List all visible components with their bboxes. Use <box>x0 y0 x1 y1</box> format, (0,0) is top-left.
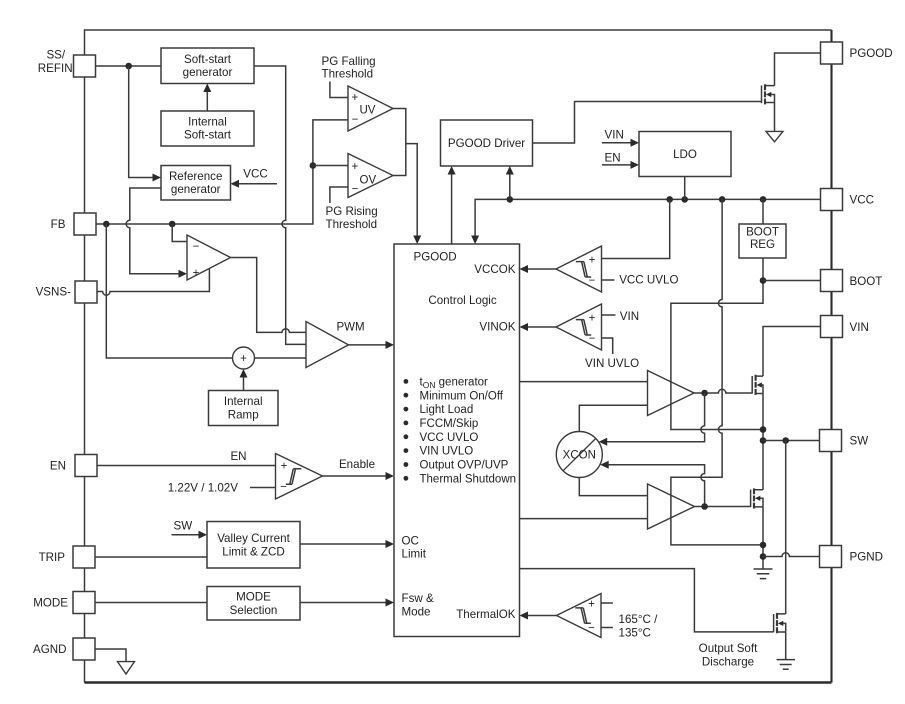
node FB junction 1 <box>103 221 110 228</box>
svg-text:Minimum On/Off: Minimum On/Off <box>420 390 504 402</box>
node VCC rail junctions <box>507 196 514 203</box>
pin EN <box>50 455 97 477</box>
wire SS/REFIN pin to soft-start generator <box>96 65 162 67</box>
wire FB node down to summing node <box>106 224 232 358</box>
svg-text:PGND: PGND <box>850 551 884 564</box>
svg-text:Ramp: Ramp <box>228 409 259 422</box>
svg-text:REG: REG <box>750 238 775 251</box>
block MODE Selection <box>207 587 300 621</box>
svg-text:Reference: Reference <box>169 170 223 183</box>
ground (PGOOD FET source, triangle style) <box>766 103 783 142</box>
wire valley block output to OC Limit <box>300 540 394 548</box>
svg-text:Light Load: Light Load <box>420 404 474 416</box>
node SW discharge tap <box>782 437 789 444</box>
svg-text:Internal: Internal <box>224 395 263 408</box>
svg-text:−: − <box>352 183 359 195</box>
label EN (into LDO) <box>602 151 639 169</box>
wire error amp output to PWM top input (hops soft-start line) <box>231 258 307 333</box>
node SW junctions <box>760 426 767 433</box>
wire VIN UVLO output to VINOK <box>520 323 557 331</box>
svg-text:Soft-start: Soft-start <box>184 129 232 142</box>
svg-text:BOOT: BOOT <box>850 275 883 288</box>
block Soft-start generator <box>161 48 254 84</box>
svg-text:VIN: VIN <box>620 310 639 323</box>
pin TRIP <box>39 546 95 568</box>
ground (low-side source, 3-bar) <box>754 557 773 579</box>
wire EN pin to EN comparator <box>97 465 276 467</box>
node HS driver output junction <box>701 390 708 397</box>
svg-text:VCC: VCC <box>243 168 267 181</box>
ground (AGND, triangle style) <box>96 649 135 674</box>
block PGOOD Driver <box>441 120 533 166</box>
wire MODE selection output to Fsw & Mode <box>300 599 394 607</box>
comparator VIN UVLO (hysteresis) <box>556 304 639 370</box>
wire SS node down to reference generator input <box>129 66 161 182</box>
svg-text:Selection: Selection <box>230 604 278 617</box>
svg-text:ThermalOK: ThermalOK <box>456 608 516 621</box>
wire VCC UVLO output to VCCOK <box>520 265 557 273</box>
svg-text:Control Logic: Control Logic <box>428 294 497 307</box>
block Internal Ramp <box>209 391 279 426</box>
wire control logic up to PGOOD driver <box>448 166 456 244</box>
svg-text:+: + <box>589 254 596 266</box>
node SS junction <box>125 63 132 70</box>
svg-text:VIN: VIN <box>850 321 869 334</box>
svg-text:Internal: Internal <box>188 116 227 129</box>
wire summing node to PWM bottom input <box>255 357 307 359</box>
wire PGOOD pin to FET drain <box>775 53 821 86</box>
wire OV tap to OV + input <box>313 165 348 167</box>
wire FB pin to UV/OV comparators <box>96 120 348 224</box>
label 1.22V / 1.02V <box>168 481 276 494</box>
svg-text:VIN: VIN <box>605 128 624 141</box>
pin FB <box>51 213 96 235</box>
svg-text:AGND: AGND <box>33 643 67 656</box>
pin SW <box>820 430 869 452</box>
wire control logic to high-side driver input <box>520 381 648 383</box>
svg-text:Threshold: Threshold <box>326 218 378 231</box>
svg-text:+: + <box>240 353 247 365</box>
svg-text:VCC UVLO: VCC UVLO <box>619 274 678 287</box>
svg-text:SW: SW <box>174 519 193 532</box>
pin PGND <box>820 546 884 568</box>
svg-text:+: + <box>281 461 288 473</box>
pin SS/REFIN <box>38 49 96 77</box>
svg-text:+: + <box>193 267 200 279</box>
svg-text:+: + <box>351 161 358 173</box>
summing node <box>233 347 255 369</box>
wire PWM output to control logic <box>349 341 395 349</box>
svg-text:VIN UVLO: VIN UVLO <box>585 357 639 370</box>
wire UV/OV outputs joined <box>393 109 406 176</box>
transistor output soft discharge FET <box>774 613 786 633</box>
svg-text:Soft-start: Soft-start <box>184 53 232 66</box>
block Reference generator <box>161 166 231 201</box>
pin MODE <box>33 592 95 614</box>
label PG Rising Threshold <box>326 187 378 231</box>
svg-text:OV: OV <box>360 174 377 186</box>
pin BOOT <box>821 270 883 292</box>
wire soft-start generator output down to PWM middle input (hops FB wire) <box>254 66 306 344</box>
svg-text:EN: EN <box>230 450 246 463</box>
svg-text:Mode: Mode <box>402 606 431 619</box>
pin PGOOD <box>821 42 893 64</box>
wire TRIP pin to valley current limit block <box>95 556 207 558</box>
wire XCON top to high-side driver input <box>579 405 647 431</box>
svg-text:XCON: XCON <box>563 450 596 462</box>
pin VCC <box>821 189 874 211</box>
comparator PWM <box>306 322 365 368</box>
wire low-side driver output to LS FET gate <box>695 506 751 508</box>
wire PGOOD driver output to PGOOD FET gate <box>533 102 762 144</box>
wire VIN pin to HS FET drain <box>763 327 821 377</box>
wire high-side driver output to HS FET gate (hops VCC drop) <box>694 389 752 393</box>
chip outline border <box>85 30 832 683</box>
block Valley Current Limit & ZCD <box>207 522 300 569</box>
svg-text:VCCOK: VCCOK <box>474 263 515 276</box>
wire VCC rail from VCC pin to control logic <box>471 199 820 244</box>
svg-text:SW: SW <box>850 435 869 448</box>
svg-text:SS/: SS/ <box>46 49 65 62</box>
svg-text:PGOOD: PGOOD <box>414 251 457 264</box>
svg-text:REFIN: REFIN <box>38 62 73 75</box>
ground (discharge FET source, 3-bar) <box>777 632 796 669</box>
wire XCON bottom to low-side driver input <box>579 478 647 496</box>
pin VIN <box>821 316 869 338</box>
wire internal ramp up to summing node <box>240 369 248 391</box>
node PGND junctions <box>760 542 767 549</box>
node BOOT junction <box>760 277 767 284</box>
wire VIN UVLO - stub down to VIN UVLO label <box>602 338 613 354</box>
wire SW node down to discharge FET drain <box>785 441 787 614</box>
svg-text:135°C: 135°C <box>619 627 651 640</box>
svg-text:EN: EN <box>50 460 66 473</box>
gate driver high-side U-HS <box>648 371 695 416</box>
svg-text:PG Rising: PG Rising <box>326 205 378 218</box>
svg-text:Enable: Enable <box>339 458 375 471</box>
op-amp error amplifier <box>187 235 231 280</box>
svg-text:Output OVP/UVP: Output OVP/UVP <box>420 460 509 472</box>
svg-text:FCCM/Skip: FCCM/Skip <box>420 418 479 430</box>
svg-text:PGOOD: PGOOD <box>850 47 893 60</box>
wire VCC UVLO - stub <box>602 279 615 281</box>
wire BOOT node to BOOT pin <box>763 280 821 282</box>
wire VIN UVLO + stub <box>602 314 616 316</box>
svg-text:+: + <box>589 312 596 324</box>
svg-text:generator: generator <box>183 66 233 79</box>
svg-text:PGOOD Driver: PGOOD Driver <box>448 137 525 150</box>
svg-text:MODE: MODE <box>236 591 271 604</box>
svg-text:+: + <box>351 92 358 104</box>
wire LS FET source down to PGND node <box>762 507 764 557</box>
svg-text:VCC: VCC <box>850 194 874 207</box>
gate driver low-side U-LS <box>648 484 695 529</box>
transistor PGOOD pull-down FET <box>762 84 775 104</box>
svg-text:LDO: LDO <box>673 148 697 161</box>
svg-text:+: + <box>588 598 595 610</box>
svg-text:Discharge: Discharge <box>702 656 754 669</box>
wire SW pin to switch node <box>763 440 820 442</box>
svg-text:VCC UVLO: VCC UVLO <box>420 432 479 444</box>
comparator VCC UVLO (hysteresis) <box>556 246 678 292</box>
wire EN comparator output (Enable) to control logic <box>323 458 395 480</box>
block Internal Soft-start <box>161 111 254 146</box>
comparator UV <box>348 86 393 131</box>
svg-text:−: − <box>193 241 200 253</box>
wire control logic to discharge FET gate <box>520 569 774 632</box>
wire VCC node up to PGOOD driver <box>506 166 514 199</box>
svg-text:generator: generator <box>171 183 221 196</box>
label SW (into valley current limit) <box>172 519 208 538</box>
svg-text:UV: UV <box>360 104 376 116</box>
comparator OV <box>348 154 393 198</box>
wire VCC passthrough to low-side driver and PGND (hops BOOT rail, SW line) <box>671 199 763 545</box>
svg-text:Limit: Limit <box>402 548 427 561</box>
svg-text:BOOT: BOOT <box>746 226 779 239</box>
svg-text:TRIP: TRIP <box>39 551 66 564</box>
wire UV/OV result down into control logic (PGOOD) <box>406 144 421 244</box>
label Output Soft Discharge <box>699 642 758 669</box>
wire MODE pin to MODE selection block <box>95 602 207 604</box>
svg-text:OC: OC <box>402 534 419 547</box>
svg-text:−: − <box>280 481 287 493</box>
svg-text:Limit & ZCD: Limit & ZCD <box>222 545 284 558</box>
block Control Logic <box>394 244 520 637</box>
wire PGND pin to PGND node (hops discharge drain) <box>763 553 820 557</box>
wire VSNS- pin to error amp bottom (hops vertical) <box>97 269 209 296</box>
block LDO <box>639 132 731 177</box>
comparator EN (hysteresis) <box>276 454 323 500</box>
wire internal-soft-start to generator (up arrow) <box>203 84 211 112</box>
svg-text:EN: EN <box>605 151 621 164</box>
wire LS output up to XCON (hops VCC jog) <box>600 461 704 507</box>
pin VSNS- <box>36 281 97 303</box>
svg-text:Output Soft: Output Soft <box>699 642 758 655</box>
transistor high-side FET <box>752 375 763 395</box>
label VIN (into LDO) <box>602 128 639 146</box>
node OV tap junction <box>310 162 317 169</box>
wire LDO output down to VCC rail <box>684 177 686 200</box>
wire ThermalOK + - stubs <box>601 603 613 628</box>
svg-text:PG Falling: PG Falling <box>322 55 376 68</box>
svg-text:VIN UVLO: VIN UVLO <box>420 446 474 458</box>
svg-text:Threshold: Threshold <box>322 68 374 81</box>
wire HS output down to XCON (hops SW line) <box>599 393 705 446</box>
wire control logic to low-side driver input <box>520 518 648 520</box>
node FB junction 2 <box>169 221 176 228</box>
wire VCC rail node down to BOOT REG <box>762 199 764 224</box>
svg-text:Thermal Shutdown: Thermal Shutdown <box>420 473 517 485</box>
label VCC (into reference generator) <box>231 168 278 188</box>
wire ThermalOK comparator output <box>520 612 557 620</box>
svg-text:VINOK: VINOK <box>479 321 515 334</box>
node LS driver output junction <box>701 503 708 510</box>
wire BOOT REG down to BOOT pin and bootstrap rail <box>671 258 763 430</box>
transistor low-side FET <box>751 488 763 508</box>
svg-text:165°C /: 165°C / <box>619 613 659 626</box>
block BOOT REG <box>739 224 786 258</box>
svg-text:−: − <box>588 623 595 635</box>
wire FB node to error amp - input <box>172 224 187 242</box>
svg-text:Fsw &: Fsw & <box>402 592 434 605</box>
svg-text:FB: FB <box>51 218 66 231</box>
svg-text:MODE: MODE <box>33 597 68 610</box>
XCON block (crossed circle) <box>556 432 602 478</box>
pin AGND <box>33 638 95 660</box>
svg-text:VSNS-: VSNS- <box>36 286 72 299</box>
svg-text:−: − <box>352 114 359 126</box>
comparator ThermalOK (hysteresis) <box>557 594 659 640</box>
svg-text:1.22V / 1.02V: 1.22V / 1.02V <box>168 481 239 494</box>
svg-text:PWM: PWM <box>337 322 365 334</box>
wire reference generator output to error amp + input (hops FB wire) <box>126 188 187 278</box>
wire VCC node to VCC UVLO + input <box>602 199 670 258</box>
svg-text:Valley Current: Valley Current <box>217 532 290 545</box>
label PG Falling Threshold <box>322 55 376 97</box>
wire HS FET source to SW node <box>762 394 764 490</box>
